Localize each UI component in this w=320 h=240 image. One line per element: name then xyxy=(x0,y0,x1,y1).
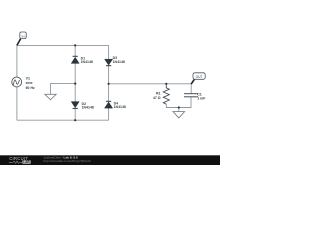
wire D1-D2 column xyxy=(74,45,76,120)
label C1 xyxy=(197,92,206,100)
wire R1C1 bottom xyxy=(166,97,191,108)
footer CircuitLab logo xyxy=(9,156,31,164)
label D3 xyxy=(113,56,125,64)
svg-text:sine: sine xyxy=(26,81,33,85)
wire D3-D4 column xyxy=(108,45,110,120)
label D2 xyxy=(82,102,94,110)
wire mid-right output xyxy=(109,84,192,94)
svg-text:R1: R1 xyxy=(156,92,161,96)
svg-text:LAB: LAB xyxy=(23,160,30,164)
svg-text:1 mF: 1 mF xyxy=(197,97,206,101)
svg-text:1N4148: 1N4148 xyxy=(113,60,125,64)
svg-text:V1: V1 xyxy=(26,76,30,80)
svg-text:1N4148: 1N4148 xyxy=(81,60,93,64)
ground right xyxy=(173,112,185,118)
footer bar xyxy=(0,155,220,165)
flag OUT xyxy=(191,73,205,84)
diode D1 xyxy=(71,56,79,63)
diode D3 xyxy=(105,59,113,65)
wire left column xyxy=(16,45,18,120)
wire top rail xyxy=(17,44,109,46)
label D4 xyxy=(114,102,126,110)
flag IN xyxy=(17,32,26,45)
svg-text:IN: IN xyxy=(21,34,24,38)
diode D2 xyxy=(71,102,79,109)
svg-text:OUT: OUT xyxy=(196,75,203,79)
svg-text:47 Ω: 47 Ω xyxy=(153,96,161,100)
svg-text:http://circuitlab.com/c/6r2yp/: http://circuitlab.com/c/6r2yp/7j6cn3/ xyxy=(44,159,91,163)
wire right ground stem xyxy=(178,108,180,112)
svg-text:1N4148: 1N4148 xyxy=(114,105,126,109)
wire mid-left to ground xyxy=(51,84,76,95)
node junction dots xyxy=(74,44,180,121)
svg-text:1N4148: 1N4148 xyxy=(82,105,94,109)
wire bottom rail xyxy=(17,119,109,121)
footer text xyxy=(44,156,91,164)
voltage source V1 xyxy=(12,77,22,87)
capacitor C1 xyxy=(184,94,198,97)
label D1 xyxy=(81,57,93,64)
svg-text:60 Hz: 60 Hz xyxy=(26,86,35,90)
resistor R1 xyxy=(163,84,169,104)
diode D4 xyxy=(105,101,113,108)
label V1 xyxy=(26,76,35,90)
label R1 xyxy=(153,92,161,101)
ground left xyxy=(45,94,56,100)
